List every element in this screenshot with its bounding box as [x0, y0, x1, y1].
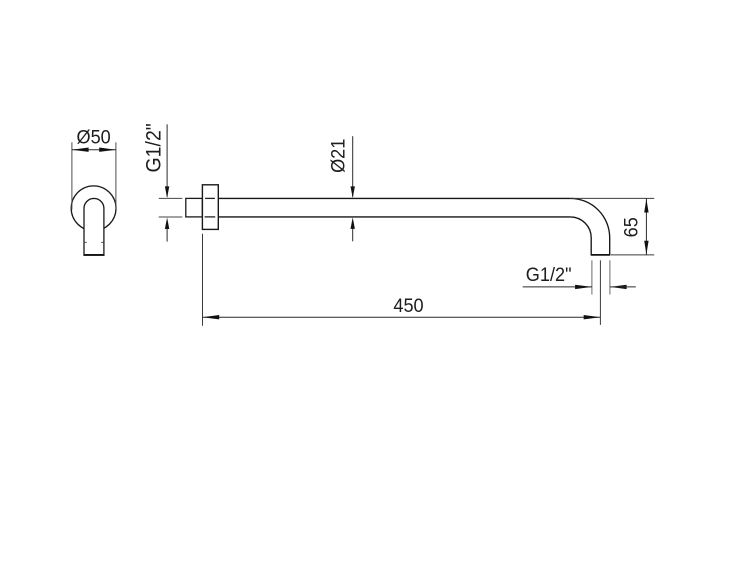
arm pipe top edge [218, 197, 570, 199]
dimension G1/2 inlet extension line top [159, 197, 183, 199]
dimension 65 top arrowhead (up) [644, 199, 648, 213]
dimension 65 extension line bottom [611, 254, 654, 256]
arm bend outer curve and outlet right edge [570, 198, 609, 255]
dimension G1/2 inlet lower arrowhead (up) [165, 218, 169, 230]
wall flange (side view) [202, 185, 218, 230]
dimension 450 right arrowhead [584, 315, 601, 319]
dimension Ø50 line [72, 149, 116, 151]
hidden line dash bottom (pipe through flange) [205, 216, 216, 218]
svg-text:450: 450 [393, 294, 423, 316]
dimension G1/2 outlet left leader line [523, 286, 592, 288]
dimension Ø21 lower arrowhead (up) [351, 217, 355, 229]
dimension Ø50 right arrowhead [99, 148, 116, 152]
arm pipe bottom edge [218, 216, 570, 218]
outlet centreline [599, 260, 601, 325]
dimension Ø50 extension line right [115, 142, 117, 209]
dimension Ø21 upper arrowhead (down) [351, 186, 355, 198]
svg-text:G1/2": G1/2" [143, 123, 166, 172]
dimension Ø50 left arrowhead [72, 148, 89, 152]
dimension 65 extension line top [572, 197, 655, 199]
dimension 450 left arrowhead [203, 315, 220, 319]
svg-text:65: 65 [620, 217, 642, 237]
dimension G1/2 outlet right leader line [610, 286, 636, 288]
end-view tube bottom cap line [84, 254, 105, 256]
svg-text:Ø21: Ø21 [327, 139, 349, 173]
dimension G1/2 outlet right arrowhead (left) [610, 285, 627, 289]
dimension G1/2 inlet upper leader line [166, 124, 168, 197]
dimension G1/2 outlet extension line right [609, 260, 611, 294]
dimension 450 extension line left (wall face) [202, 234, 204, 326]
inlet thread stub [186, 198, 203, 217]
dimension G1/2 inlet lower leader line [166, 229, 168, 242]
dimension G1/2 inlet upper arrowhead (down) [165, 186, 169, 198]
dimension Ø21 upper leader line [352, 136, 354, 197]
dimension 450 line [203, 316, 601, 318]
arm bend inner curve and outlet left edge [570, 217, 591, 255]
end-view thread tick marks [84, 241, 87, 243]
dimension 65 bottom arrowhead (down) [644, 241, 648, 255]
outlet end cap line [591, 254, 611, 256]
svg-text:Ø50: Ø50 [76, 126, 110, 148]
hidden line dash top (pipe through flange) [205, 197, 215, 199]
dimension G1/2 outlet left arrowhead (right) [575, 285, 592, 289]
dimension Ø21 lower leader line [352, 228, 354, 241]
dimension Ø50 extension line left [71, 142, 73, 209]
wall flange circle (end view, Ø50) [71, 186, 116, 231]
svg-text:G1/2": G1/2" [526, 263, 572, 285]
arm down-tube (end view, stadium outline) [84, 198, 104, 255]
dimension G1/2 inlet extension line bottom [159, 216, 183, 218]
dimension 65 line [645, 198, 647, 255]
dimension G1/2 outlet extension line left [591, 260, 593, 294]
